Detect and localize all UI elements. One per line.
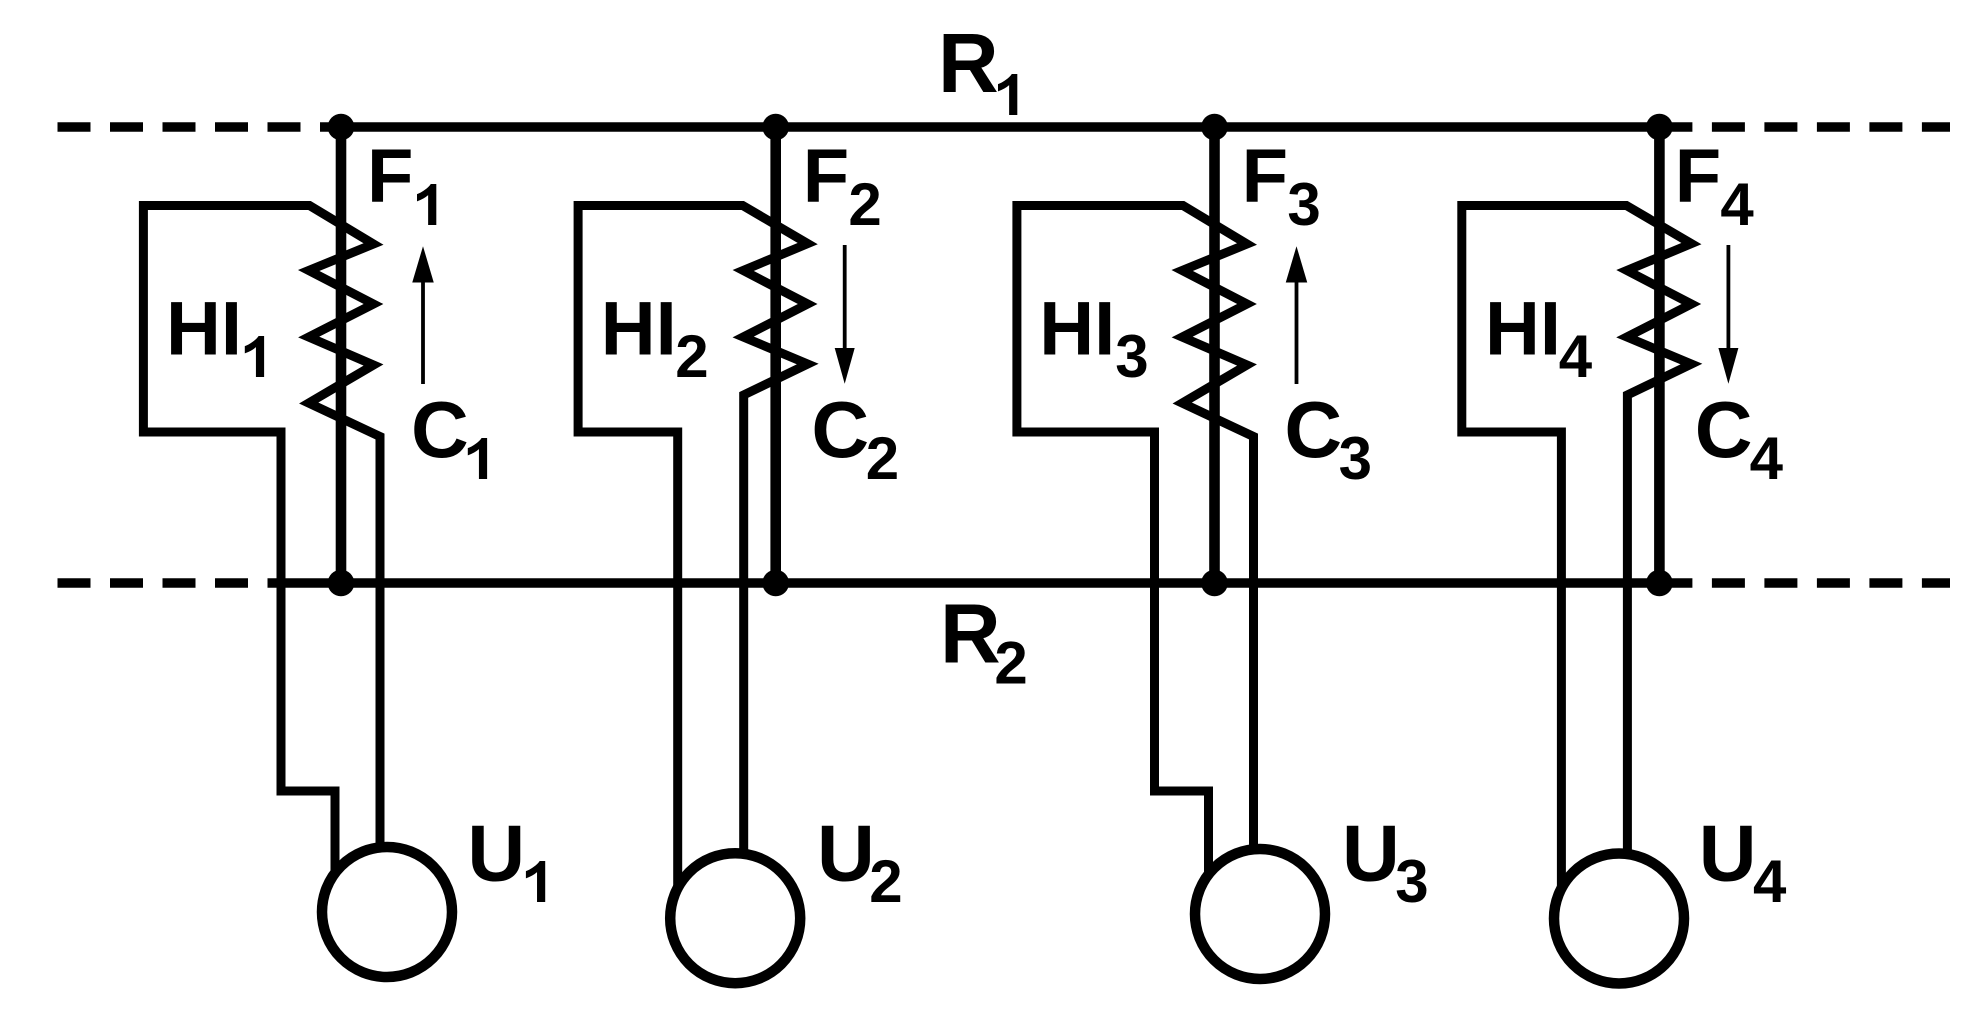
svg-text:F: F xyxy=(803,133,849,218)
svg-text:4: 4 xyxy=(1559,323,1593,390)
svg-text:R: R xyxy=(938,16,999,110)
svg-text:3: 3 xyxy=(1287,171,1320,238)
svg-text:C: C xyxy=(411,385,469,474)
svg-text:U: U xyxy=(1342,808,1400,897)
svg-text:2: 2 xyxy=(869,848,902,915)
svg-text:R: R xyxy=(940,586,1001,680)
svg-text:4: 4 xyxy=(1750,425,1784,492)
svg-text:U: U xyxy=(1699,808,1757,897)
svg-text:HI: HI xyxy=(1039,286,1115,371)
svg-text:HI: HI xyxy=(166,286,242,371)
svg-text:2: 2 xyxy=(848,171,881,238)
svg-text:2: 2 xyxy=(866,425,899,492)
svg-text:HI: HI xyxy=(601,286,677,371)
svg-text:2: 2 xyxy=(675,323,708,390)
svg-text:C: C xyxy=(811,385,869,474)
svg-text:F: F xyxy=(367,133,413,218)
svg-text:U: U xyxy=(467,808,525,897)
svg-text:3: 3 xyxy=(1395,848,1428,915)
svg-text:C: C xyxy=(1695,385,1753,474)
svg-text:F: F xyxy=(1675,133,1721,218)
svg-text:U: U xyxy=(817,808,875,897)
svg-text:3: 3 xyxy=(1115,323,1148,390)
svg-text:F: F xyxy=(1242,133,1288,218)
svg-text:2: 2 xyxy=(994,630,1027,697)
svg-text:C: C xyxy=(1284,385,1342,474)
svg-text:3: 3 xyxy=(1339,425,1372,492)
svg-text:HI: HI xyxy=(1485,286,1561,371)
svg-text:4: 4 xyxy=(1720,171,1754,238)
svg-text:4: 4 xyxy=(1753,848,1787,915)
